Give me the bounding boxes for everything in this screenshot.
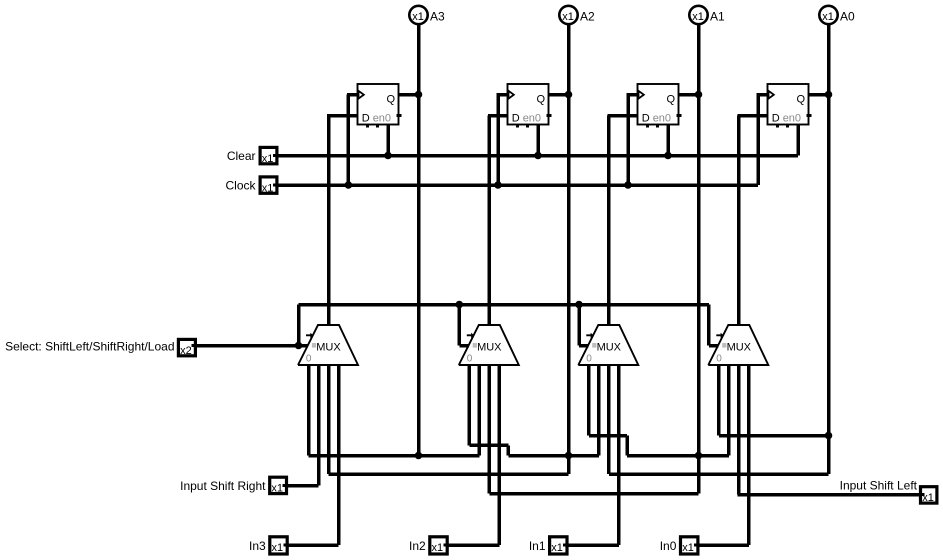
mux MUX3 (4-to-1) [298, 325, 358, 365]
wire MUX2 output to FF2 D input [488, 116, 510, 326]
svg-text:Input Shift Left: Input Shift Left [840, 479, 918, 493]
label Clock [225, 179, 256, 193]
input pin Clear (x1) [260, 147, 278, 164]
label In3 [249, 539, 266, 553]
node clock-FF2 junction [494, 181, 502, 189]
svg-text:x1: x1 [692, 11, 704, 23]
svg-text:x1: x1 [271, 483, 283, 495]
svg-text:Input Shift Right: Input Shift Right [180, 479, 266, 493]
wire In1 to MUX1 load input [568, 365, 618, 545]
label Clear [227, 149, 256, 163]
flip-flop FF2 (D register with enable) [508, 84, 552, 127]
wire MUX0 output to FF0 D input [737, 116, 770, 326]
label A3 [430, 10, 445, 24]
svg-text:MUX: MUX [316, 342, 341, 354]
node select junction MUX3 [295, 342, 303, 350]
svg-text:Clock: Clock [225, 179, 256, 193]
wire A1 vertical [697, 25, 701, 494]
wire Q2 horizontal (y=455.5) [508, 454, 598, 458]
wire select tap MUX2 [459, 305, 469, 346]
flip-flop FF3 (D register with enable) [358, 84, 402, 127]
svg-text:Q: Q [537, 94, 546, 106]
wire In3 to MUX3 load input [289, 365, 339, 545]
svg-text:en0: en0 [373, 112, 391, 124]
wire clock to FF1 [627, 95, 638, 186]
svg-text:A0: A0 [840, 10, 855, 24]
wire MUX1 shift-right input riser [597, 365, 601, 456]
wire select tap MUX0 [709, 305, 719, 346]
wire A2 vertical [567, 25, 571, 475]
svg-text:In0: In0 [660, 539, 677, 553]
svg-text:In3: In3 [249, 539, 266, 553]
svg-text:x2: x2 [180, 345, 192, 357]
wire Q3 output horizontal [399, 93, 419, 97]
svg-text:D: D [642, 112, 650, 124]
wire select riser [297, 305, 301, 346]
node clock-FF3 junction [345, 181, 353, 189]
label Input Shift Left [840, 479, 918, 493]
wire Q1 to MUX2 shift-left input (y=493.5) [489, 492, 698, 496]
input pin In2 (x1) [430, 537, 449, 554]
svg-text:Q: Q [387, 94, 396, 106]
wire clear to FF3 [386, 123, 390, 156]
input pin Select (x2) [178, 339, 197, 356]
svg-text:x1: x1 [272, 542, 284, 554]
svg-text:x1: x1 [412, 11, 424, 23]
svg-text:0: 0 [716, 354, 722, 365]
wire Q2 to MUX3 shift-left input (y=474) [329, 472, 569, 476]
wire Q3 horizontal (y=455.5) [309, 454, 480, 458]
wire MUX1 hold input (Q1) [589, 365, 627, 456]
label In2 [409, 539, 426, 553]
node select junction MUX2 [456, 301, 464, 309]
wire Q1 horizontal (y=455.5) [627, 454, 729, 458]
svg-text:en0: en0 [523, 112, 541, 124]
wire select from pin to MUX3 [197, 344, 308, 348]
node Q1 junction lower [695, 452, 703, 460]
label In0 [660, 539, 677, 553]
wire clear to FF0 [796, 123, 800, 156]
wire clear net horizontal [279, 154, 799, 158]
wire clock to FF2 [497, 95, 508, 186]
wire MUX3 output to FF3 D input [327, 116, 360, 326]
label Input Shift Right [180, 479, 266, 493]
wire MUX0 hold input (Q0) [719, 365, 829, 436]
wire Q0 output horizontal [809, 93, 829, 97]
wire Q1 output horizontal [679, 93, 699, 97]
svg-text:A1: A1 [710, 10, 725, 24]
svg-text:D: D [772, 112, 780, 124]
svg-text:Select: ShiftLeft/ShiftRight/L: Select: ShiftLeft/ShiftRight/Load [5, 340, 174, 354]
wire select tap MUX1 [579, 305, 589, 346]
svg-text:0: 0 [586, 354, 592, 365]
svg-text:x1: x1 [432, 542, 444, 554]
mux MUX1 (4-to-1) [578, 325, 638, 365]
svg-text:In2: In2 [409, 539, 426, 553]
output pin A3 (x1) [409, 6, 427, 24]
wire MUX3 hold input (Q3) [307, 365, 311, 456]
svg-text:D: D [512, 112, 520, 124]
label Select: ShiftLeft/ShiftRight/Load [5, 340, 174, 354]
svg-text:0: 0 [306, 354, 312, 365]
mux MUX0 (4-to-1) [708, 325, 768, 365]
svg-text:D: D [362, 112, 370, 124]
svg-text:A2: A2 [580, 10, 595, 24]
wire clear to FF2 [536, 123, 540, 156]
svg-text:Clear: Clear [227, 149, 256, 163]
node Q2 junction at output [565, 91, 573, 99]
svg-text:MUX: MUX [477, 342, 502, 354]
wire In0 to MUX0 load input [699, 365, 749, 545]
node Q0 junction lower [825, 432, 833, 440]
node select junction MUX1 [575, 301, 583, 309]
node Q1 junction at output [695, 91, 703, 99]
svg-text:x1: x1 [551, 542, 563, 554]
node clear-FF3 junction [384, 152, 392, 160]
node clear-FF2 junction [534, 152, 542, 160]
output pin A0 (x1) [819, 6, 837, 24]
input pin In1 (x1) [550, 537, 569, 554]
wire ISR to MUX3 shift-right input [288, 365, 318, 486]
wire MUX1 shift-left riser [607, 365, 611, 474]
wire Q0 to MUX1 shift-left input (y=474) [609, 472, 829, 476]
wire select bus horizontal [299, 303, 709, 307]
wire clock to FF3 [347, 95, 358, 186]
node Q0 junction at output [825, 91, 833, 99]
svg-text:MUX: MUX [727, 342, 752, 354]
wire MUX1 output to FF1 D input [607, 116, 640, 326]
input pin Clock (x1) [260, 177, 278, 194]
svg-text:en0: en0 [653, 112, 671, 124]
node Q3 junction lower [415, 452, 423, 460]
svg-text:x1: x1 [262, 182, 274, 194]
wire A0 vertical [827, 25, 831, 475]
wire Q2 output horizontal [549, 93, 569, 97]
svg-text:x1: x1 [682, 542, 694, 554]
wire A3 vertical [417, 25, 421, 456]
input pin Input Shift Right (x1) [270, 477, 288, 494]
output pin A2 (x1) [559, 6, 577, 24]
input pin In3 (x1) [270, 537, 289, 554]
flip-flop FF1 (D register with enable) [638, 84, 682, 127]
wire clear to FF1 [666, 123, 670, 156]
svg-text:x1: x1 [562, 11, 574, 23]
label In1 [529, 539, 546, 553]
input pin Input Shift Left (x1) [919, 487, 937, 504]
input pin In0 (x1) [681, 537, 700, 554]
node clock-FF1 junction [624, 181, 632, 189]
svg-text:x1: x1 [922, 492, 934, 504]
svg-text:x1: x1 [262, 153, 274, 165]
output pin A1 (x1) [689, 6, 707, 24]
wire MUX0 shift-left riser to ISL [737, 365, 919, 495]
svg-text:In1: In1 [529, 539, 546, 553]
node Q2 junction lower [565, 452, 573, 460]
wire clock to FF0 [757, 95, 768, 186]
wire MUX2 hold input (Q2) [469, 365, 508, 456]
svg-text:x1: x1 [822, 11, 834, 23]
label A0 [840, 10, 855, 24]
svg-text:MUX: MUX [597, 342, 622, 354]
label A1 [710, 10, 725, 24]
node Q3 junction at output [415, 91, 423, 99]
mux MUX2 (4-to-1) [459, 325, 519, 365]
wire clock net horizontal [279, 183, 759, 187]
svg-text:en0: en0 [783, 112, 801, 124]
label A2 [580, 10, 595, 24]
svg-text:Q: Q [797, 94, 806, 106]
wire MUX0 shift-right input riser [727, 365, 731, 456]
node clear-FF1 junction [664, 152, 672, 160]
svg-text:0: 0 [467, 354, 473, 365]
wire MUX2 shift-right input riser [478, 365, 482, 456]
flip-flop FF0 (D register with enable) [768, 84, 812, 127]
wire MUX2 shift-left riser [488, 365, 492, 494]
svg-text:Q: Q [667, 94, 676, 106]
wire In2 to MUX2 load input [449, 365, 500, 545]
wire MUX3 shift-left riser [327, 365, 331, 474]
svg-text:A3: A3 [430, 10, 445, 24]
